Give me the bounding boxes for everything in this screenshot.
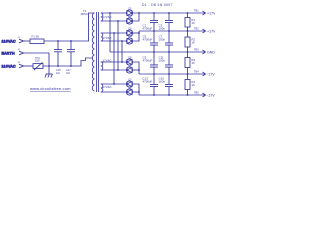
- transformer T1 primary winding: [92, 13, 94, 91]
- svg-text:4700uF: 4700uF: [143, 59, 153, 63]
- svg-text:EARTH: EARTH: [2, 52, 15, 56]
- wire riser tap to ground bus: [109, 13, 111, 52]
- svg-text:GND: GND: [207, 51, 215, 55]
- svg-text:D4: D4: [129, 36, 133, 39]
- capacitor C1 4700uF: [143, 13, 159, 31]
- terminal -17V rail A: [194, 71, 215, 77]
- svg-text:TB2: TB2: [194, 28, 199, 31]
- svg-text:TB4: TB4: [194, 71, 199, 74]
- transformer secondary winding W3: [101, 62, 103, 70]
- wire fuse to transformer primary top riser: [44, 13, 95, 41]
- svg-text:TB5: TB5: [194, 92, 199, 95]
- svg-text:4700uF: 4700uF: [143, 38, 153, 42]
- svg-text:1K: 1K: [192, 21, 195, 25]
- capacitor C16 line filter: [54, 41, 62, 75]
- resistor R1: [185, 13, 195, 31]
- bus +17V rail B: [139, 30, 205, 32]
- wire J1 to fuse: [24, 40, 31, 42]
- svg-text:D3: D3: [129, 28, 133, 31]
- thermistor TH1: [33, 57, 43, 70]
- svg-text:J2: J2: [18, 49, 21, 51]
- svg-text:www.circuitsfree.com: www.circuitsfree.com: [30, 86, 71, 91]
- terminal +17V rail A: [194, 10, 216, 16]
- diode D1: [126, 8, 132, 16]
- transformer secondary winding W4: [101, 84, 103, 92]
- capacitor C7 100n: [159, 31, 174, 52]
- svg-text:100n: 100n: [159, 27, 166, 31]
- wire W1 bottom tap: [101, 20, 127, 22]
- svg-text:1K: 1K: [192, 83, 195, 87]
- diode D4: [126, 36, 132, 45]
- transformer T1 label: [81, 9, 89, 16]
- wire D6 output stub: [132, 69, 139, 71]
- wire W2 bottom tap: [101, 40, 127, 42]
- diode D6: [126, 65, 132, 74]
- wire W3 top tap: [101, 61, 127, 63]
- node C17 taps: [70, 40, 72, 42]
- svg-text:+17V: +17V: [207, 12, 215, 16]
- diode D8: [126, 87, 132, 96]
- svg-text:10D: 10D: [35, 60, 40, 63]
- wire D2 output riser: [132, 13, 139, 21]
- node earth/neutral junction: [48, 65, 50, 67]
- svg-text:-17V: -17V: [207, 94, 215, 98]
- wire W4 bottom tap: [101, 91, 127, 93]
- svg-text:10n: 10n: [56, 72, 61, 75]
- bus GND rail: [110, 51, 205, 53]
- chassis ground: [45, 74, 53, 78]
- svg-text:17VAC: 17VAC: [103, 85, 112, 89]
- svg-text:D1: D1: [129, 8, 133, 11]
- resistor R3: [185, 52, 195, 74]
- diode D2: [126, 16, 132, 24]
- node C16 taps: [57, 40, 59, 42]
- svg-text:-17V: -17V: [207, 73, 215, 77]
- wire riser W1 bottom crossover: [117, 21, 119, 70]
- diode D5: [126, 57, 132, 66]
- capacitor C17 line filter: [66, 41, 75, 75]
- svg-text:F1 3A: F1 3A: [32, 35, 40, 39]
- wire D3 output stub: [132, 32, 139, 34]
- bus -17V rail B: [139, 94, 205, 96]
- wire thermistor to transformer primary bottom: [43, 58, 92, 66]
- capacitor C11 100n: [159, 52, 174, 74]
- wire W4 top tap: [101, 83, 127, 85]
- svg-text:D2: D2: [129, 16, 133, 19]
- terminal -17V rail B: [194, 92, 215, 98]
- wire earth to ground drop: [24, 53, 50, 74]
- wire W1 top tap: [101, 12, 127, 14]
- svg-text:D1 - D8 1N 4007: D1 - D8 1N 4007: [142, 3, 173, 7]
- input terminal J1 110VAC live: [2, 37, 24, 44]
- wire D8 output stub: [132, 91, 139, 93]
- svg-text:TB1: TB1: [194, 10, 199, 13]
- wire D7 D8 output riser: [132, 84, 139, 95]
- terminal GND: [194, 49, 215, 55]
- input terminal J3 110VAC neutral: [2, 62, 24, 69]
- svg-text:1K: 1K: [192, 41, 195, 45]
- transformer secondary winding W2: [101, 33, 103, 41]
- wire D5 D6 output riser: [132, 62, 139, 74]
- svg-text:J1: J1: [18, 37, 21, 39]
- svg-text:10n: 10n: [66, 72, 71, 75]
- resistor R2: [185, 31, 195, 52]
- capacitor C3 100n: [159, 13, 174, 31]
- svg-text:4700uF: 4700uF: [143, 80, 153, 84]
- capacitor C9 4700uF: [143, 52, 159, 74]
- capacitor C5 4700uF: [143, 31, 159, 52]
- fuse F1: [30, 35, 44, 44]
- svg-text:100n: 100n: [159, 59, 166, 63]
- diode D3: [126, 28, 132, 36]
- svg-text:100n: 100n: [159, 80, 166, 84]
- transformer secondary winding W1: [101, 13, 103, 21]
- wire riser W2 top crossover: [113, 33, 115, 84]
- capacitor C13 4700uF: [143, 74, 159, 95]
- diode D7: [126, 79, 132, 88]
- svg-text:1K: 1K: [192, 61, 195, 65]
- terminal +17V rail B: [194, 28, 216, 34]
- input terminal J2 EARTH: [2, 49, 24, 56]
- svg-text:4700uF: 4700uF: [143, 27, 153, 31]
- svg-text:TB3: TB3: [194, 49, 199, 52]
- wire W3 bottom tap: [101, 69, 127, 71]
- capacitor C15 100n: [159, 74, 174, 95]
- svg-text:300VA: 300VA: [81, 13, 89, 16]
- svg-text:+17V: +17V: [207, 30, 215, 34]
- wire riser W2 bottom crossover: [121, 41, 123, 62]
- wire J3 to thermistor: [24, 65, 34, 67]
- svg-text:J3: J3: [18, 62, 21, 64]
- resistor R4: [185, 74, 195, 95]
- bus -17V rail A: [139, 73, 205, 75]
- svg-text:100n: 100n: [159, 38, 166, 42]
- svg-text:110VAC: 110VAC: [2, 65, 16, 69]
- wire W2 top tap: [101, 32, 127, 34]
- transformer core: [96, 12, 98, 92]
- bus +17V rail A: [132, 12, 205, 14]
- wire D3 D4 output riser: [132, 31, 139, 41]
- svg-text:110VAC: 110VAC: [2, 40, 16, 44]
